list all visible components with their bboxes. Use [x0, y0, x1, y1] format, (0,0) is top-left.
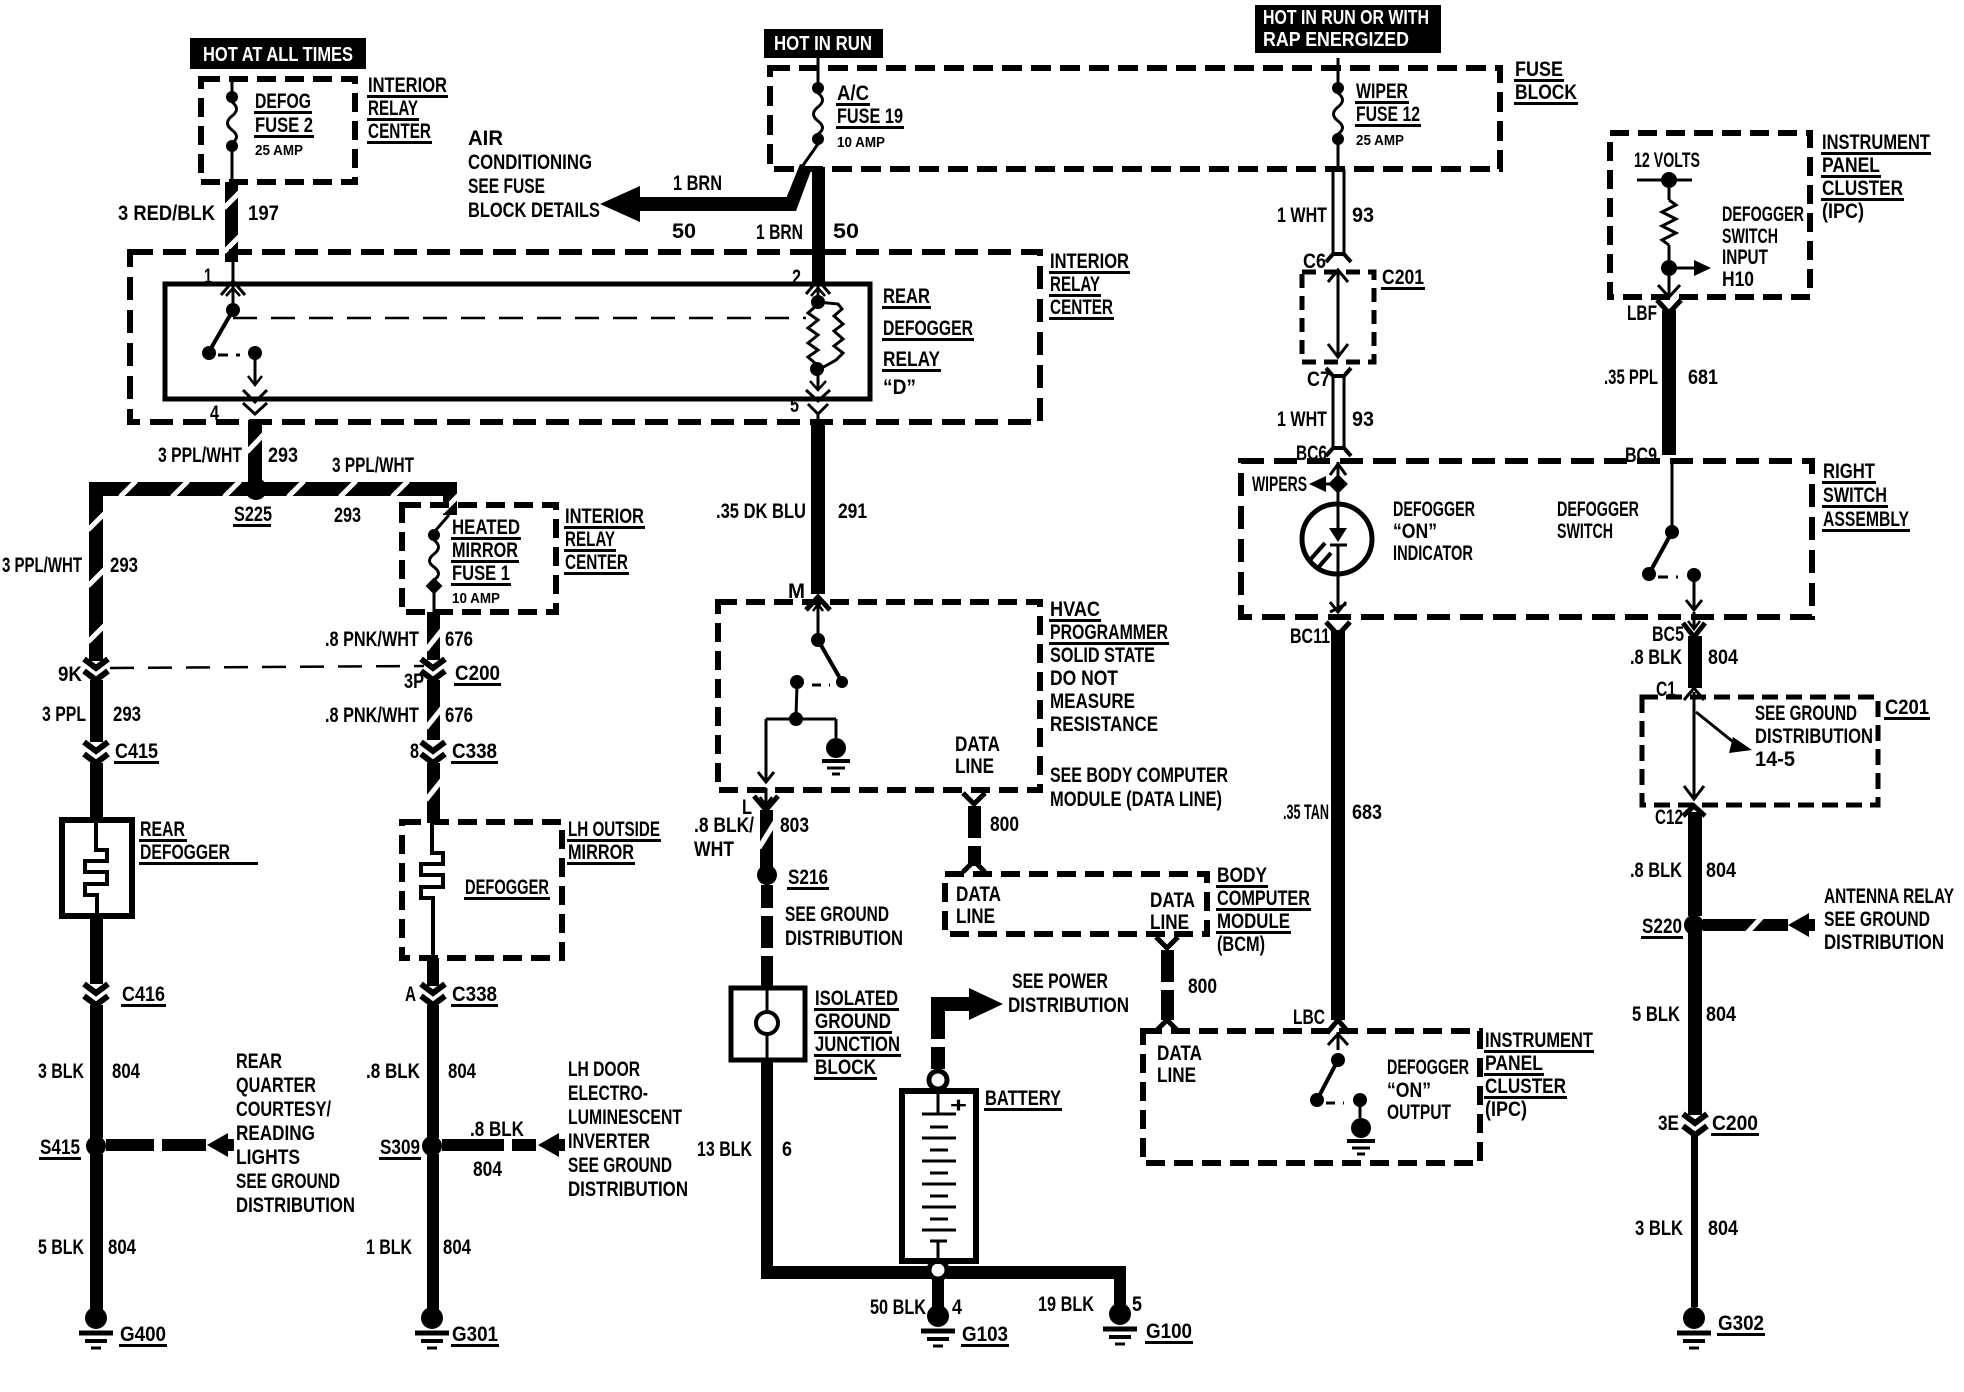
label .35 TAN 683 [1283, 801, 1382, 824]
svg-text:.8 BLK: .8 BLK [366, 1060, 420, 1083]
svg-text:GROUND: GROUND [815, 1010, 891, 1033]
ground (IPC internal) [1347, 1118, 1375, 1154]
wire through lower C201 [1684, 688, 1704, 799]
splice S216 [757, 865, 829, 890]
svg-text:CLUSTER: CLUSTER [1485, 1075, 1566, 1098]
wire 93 lower double-line (1 WHT) [1326, 368, 1351, 456]
svg-text:INSTRUMENT: INSTRUMENT [1822, 131, 1930, 154]
svg-text:5: 5 [790, 394, 799, 417]
svg-text:COMPUTER: COMPUTER [1217, 887, 1310, 910]
svg-text:OUTPUT: OUTPUT [1387, 1101, 1451, 1124]
wire .35 PPL 681 [1657, 300, 1681, 455]
fuse heated mirror symbol [426, 529, 443, 612]
svg-text:293: 293 [110, 554, 138, 577]
wire below mirror [427, 958, 439, 986]
label SEE BODY COMPUTER MODULE (DATA LINE) [1050, 764, 1228, 811]
C201 ground distribution arrow [1696, 712, 1752, 753]
right switch assembly dashed box [1241, 461, 1812, 617]
svg-text:93: 93 [1352, 408, 1374, 431]
svg-text:WIPER: WIPER [1356, 80, 1408, 103]
svg-text:DATA: DATA [956, 883, 1001, 906]
svg-text:803: 803 [780, 814, 809, 837]
label AIR CONDITIONING SEE FUSE BLOCK DETAILS [468, 127, 600, 222]
svg-text:.35 PPL: .35 PPL [1604, 366, 1658, 389]
fuse A/C FUSE 19 symbol [812, 82, 824, 145]
svg-text:READING: READING [236, 1122, 315, 1145]
label ANTENNA RELAY SEE GROUND DISTRIBUTION [1824, 885, 1954, 954]
fuse DEFOG FUSE 2 symbol [226, 91, 238, 182]
label .8 BLK/ WHT 803 [694, 814, 809, 861]
svg-text:8: 8 [410, 740, 419, 763]
wire .35 DK BLU 291 [811, 422, 825, 594]
battery top terminal circle [929, 1071, 947, 1089]
wire .8 BLK 804 (C12-S220) [1683, 806, 1705, 916]
label S225 [233, 503, 272, 527]
label A/C FUSE 19 10 AMP [836, 82, 904, 151]
svg-text:804: 804 [473, 1158, 502, 1181]
wire 293 striped from terminal 4 [247, 420, 264, 482]
mirror defogger element [421, 824, 443, 956]
wire 50 BLK 4 [932, 1279, 944, 1307]
svg-text:5 BLK: 5 BLK [1632, 1003, 1680, 1026]
terminal BC5 [1652, 612, 1705, 646]
svg-text:G100: G100 [1146, 1320, 1192, 1343]
svg-text:1 BLK: 1 BLK [366, 1236, 412, 1259]
svg-text:3 BLK: 3 BLK [1635, 1217, 1683, 1240]
label 1 BRN 50 (right) [756, 220, 859, 244]
svg-text:4: 4 [952, 1296, 962, 1319]
label REAR DEFOGGER RELAY D [882, 285, 974, 399]
fuse WIPER FUSE 12 symbol [1332, 58, 1344, 169]
svg-text:SEE GROUND: SEE GROUND [236, 1170, 340, 1193]
svg-text:REAR: REAR [236, 1050, 282, 1073]
interior relay center dashed box [130, 252, 1040, 422]
svg-text:4: 4 [210, 402, 219, 425]
wire from S225 to heated mirror fuse [435, 482, 459, 531]
svg-text:ANTENNA RELAY: ANTENNA RELAY [1824, 885, 1954, 908]
label SEE GROUND DISTRIBUTION (S216) [785, 903, 903, 950]
svg-text:RIGHT: RIGHT [1823, 460, 1875, 483]
label 3 PPL/WHT 293 (left column) [2, 554, 138, 577]
svg-text:C12: C12 [1655, 806, 1683, 829]
svg-text:676: 676 [445, 628, 473, 651]
wire 5 BLK 804 [90, 1154, 103, 1310]
label 5 BLK 804 [38, 1236, 136, 1259]
svg-text:3 PPL/WHT: 3 PPL/WHT [2, 554, 82, 577]
wire from S220 to antenna relay (arrow) [1703, 913, 1815, 937]
svg-text:FUSE 19: FUSE 19 [837, 105, 903, 128]
svg-text:PANEL: PANEL [1822, 154, 1880, 177]
svg-text:CONDITIONING: CONDITIONING [468, 151, 592, 174]
svg-text:1: 1 [204, 265, 212, 288]
label .35 PPL 681 [1604, 366, 1718, 389]
IPC defogger on output switch [1310, 1032, 1367, 1118]
svg-text:800: 800 [1188, 975, 1217, 998]
relay control dashed line [233, 317, 806, 320]
label DEFOG FUSE 2 25 AMP [254, 90, 314, 159]
svg-text:FUSE: FUSE [1515, 58, 1563, 81]
label DEFOGGER (mirror) [464, 876, 550, 900]
svg-text:“ON”: “ON” [1387, 1079, 1431, 1102]
label .35 DK BLU 291 [716, 500, 867, 523]
svg-text:BLOCK DETAILS: BLOCK DETAILS [468, 199, 600, 222]
terminal M [788, 580, 830, 620]
svg-text:RAP ENERGIZED: RAP ENERGIZED [1263, 29, 1409, 51]
svg-text:DATA: DATA [955, 733, 1000, 756]
svg-text:SWITCH: SWITCH [1722, 225, 1778, 248]
label 5 BLK 804 [1632, 1003, 1736, 1026]
svg-text:ELECTRO-: ELECTRO- [568, 1082, 648, 1105]
svg-text:A/C: A/C [837, 82, 869, 105]
splice S220 [1641, 915, 1704, 939]
svg-text:SWITCH: SWITCH [1557, 520, 1613, 543]
label DATA LINE (IPC) [1157, 1042, 1202, 1087]
svg-text:293: 293 [268, 444, 298, 467]
wire to rear defogger [90, 763, 103, 820]
instrument panel cluster dashed box (top) [1610, 133, 1810, 297]
svg-text:HOT IN RUN OR WITH: HOT IN RUN OR WITH [1263, 7, 1429, 29]
svg-text:C338: C338 [452, 740, 497, 763]
svg-text:804: 804 [108, 1236, 136, 1259]
LBC wire end flare [1327, 1020, 1349, 1033]
svg-text:CENTER: CENTER [368, 120, 431, 143]
svg-text:9K: 9K [58, 663, 82, 686]
connector C201 (lower) box [1642, 697, 1878, 805]
svg-text:G400: G400 [120, 1323, 166, 1346]
svg-text:BLOCK: BLOCK [1515, 81, 1577, 104]
wire 93 double-line (1 WHT) [1326, 169, 1351, 262]
HVAC switch [758, 610, 848, 782]
svg-text:.8 PNK/WHT: .8 PNK/WHT [325, 628, 419, 651]
ground G103 [921, 1305, 1009, 1347]
label 19 BLK 5 [1038, 1293, 1142, 1316]
svg-text:14-5: 14-5 [1755, 748, 1795, 771]
svg-text:SWITCH: SWITCH [1823, 484, 1887, 507]
dashed link 9K to C200 [110, 666, 424, 668]
svg-text:MODULE (DATA LINE): MODULE (DATA LINE) [1050, 788, 1222, 811]
svg-text:FUSE 1: FUSE 1 [452, 562, 510, 585]
dashed thick wire S216 to junction block [761, 885, 773, 988]
svg-text:197: 197 [248, 202, 279, 225]
wire .8 BLK 804 [427, 1005, 439, 1138]
svg-text:BODY: BODY [1217, 864, 1267, 887]
feed label HOT IN RUN OR WITH RAP ENERGIZED [1255, 5, 1441, 53]
svg-text:LINE: LINE [955, 755, 994, 778]
ground (HVAC internal) [822, 738, 850, 774]
wire from A/C fuse to junction [799, 144, 818, 171]
wire 19 BLK 5 [1114, 1266, 1126, 1306]
IPC internal arrow to H10 [1669, 260, 1711, 276]
svg-text:“ON”: “ON” [1393, 520, 1437, 543]
wire 3 BLK 804 [1691, 1135, 1698, 1307]
svg-text:LBC: LBC [1293, 1006, 1325, 1029]
svg-text:FUSE 12: FUSE 12 [1356, 103, 1420, 126]
wire 3 PPL 293 [90, 680, 103, 742]
ground G100 [1103, 1303, 1193, 1344]
svg-text:S220: S220 [1642, 915, 1682, 938]
svg-text:PANEL: PANEL [1485, 1052, 1543, 1075]
splice S225 dot [245, 478, 267, 500]
svg-text:A: A [405, 983, 416, 1006]
label C201 (lower) [1884, 696, 1930, 720]
svg-text:3E: 3E [1658, 1112, 1679, 1135]
svg-text:BATTERY: BATTERY [985, 1087, 1061, 1110]
svg-text:SEE GROUND: SEE GROUND [785, 903, 889, 926]
svg-text:804: 804 [1708, 1217, 1738, 1240]
svg-text:BLOCK: BLOCK [815, 1056, 876, 1079]
label INTERIOR RELAY CENTER (top left) [367, 74, 448, 144]
svg-text:1 BRN: 1 BRN [673, 172, 722, 195]
svg-text:13 BLK: 13 BLK [697, 1138, 752, 1161]
svg-text:C415: C415 [115, 740, 158, 763]
svg-text:C201: C201 [1885, 696, 1929, 719]
svg-text:PROGRAMMER: PROGRAMMER [1050, 621, 1168, 644]
svg-text:MODULE: MODULE [1217, 910, 1290, 933]
svg-text:INDICATOR: INDICATOR [1393, 542, 1473, 565]
wire from S309 to inverter (arrow) [442, 1133, 565, 1157]
label REAR DEFOGGER [139, 818, 258, 865]
svg-text:COURTESY/: COURTESY/ [236, 1098, 331, 1121]
wire below rear defogger [90, 916, 103, 984]
svg-text:LINE: LINE [1157, 1064, 1196, 1087]
connector C338 (A) [405, 983, 498, 1007]
svg-text:DISTRIBUTION: DISTRIBUTION [1755, 725, 1873, 748]
connector C200 (3P) [404, 659, 501, 693]
svg-text:.8 BLK/: .8 BLK/ [694, 814, 754, 837]
svg-text:REAR: REAR [883, 285, 930, 308]
label BODY COMPUTER MODULE (BCM) [1216, 864, 1311, 956]
svg-text:SEE BODY COMPUTER: SEE BODY COMPUTER [1050, 764, 1228, 787]
battery bottom terminal circle [929, 1261, 947, 1279]
terminal BC6 arrow into box [1330, 462, 1346, 480]
svg-text:3P: 3P [404, 670, 424, 693]
svg-text:804: 804 [443, 1236, 471, 1259]
wire 50 (1 BRN) down to relay terminal 2 [812, 167, 825, 282]
svg-text:SEE GROUND: SEE GROUND [1824, 908, 1930, 931]
label 13 BLK 6 [697, 1138, 792, 1161]
feed label HOT AT ALL TIMES [190, 38, 366, 69]
connector 9K [58, 659, 108, 686]
svg-text:50 BLK: 50 BLK [870, 1296, 926, 1319]
wire through C201 [1328, 270, 1348, 357]
svg-text:HVAC: HVAC [1050, 598, 1100, 621]
defogger switch contacts [1642, 463, 1702, 610]
svg-text:BC5: BC5 [1652, 623, 1684, 646]
svg-text:RELAY: RELAY [565, 528, 615, 551]
svg-text:C338: C338 [452, 983, 497, 1006]
svg-text:HOT IN RUN: HOT IN RUN [774, 33, 872, 55]
svg-text:JUNCTION: JUNCTION [815, 1033, 900, 1056]
svg-text:RELAY: RELAY [368, 97, 418, 120]
svg-text:.8 BLK: .8 BLK [470, 1118, 524, 1141]
ground bus wire [761, 1266, 1126, 1279]
svg-text:DEFOG: DEFOG [255, 90, 311, 113]
label DEFOGGER ON INDICATOR [1393, 498, 1475, 565]
svg-text:3 RED/BLK: 3 RED/BLK [118, 202, 215, 225]
label 3 PPL/WHT 293 (top) [158, 444, 298, 467]
label LH DOOR ELECTRO- LUMINESCENT INVERTER SEE GROUND DISTRIBUTION [568, 1058, 688, 1201]
label SEE POWER DISTRIBUTION [1008, 970, 1129, 1017]
svg-text:CENTER: CENTER [565, 551, 628, 574]
data line HVAC to BCM [963, 793, 985, 872]
svg-text:“D”: “D” [883, 376, 916, 399]
svg-text:S415: S415 [40, 1136, 80, 1159]
isolated ground junction block [731, 988, 805, 1060]
IPC internal resistor [1637, 172, 1692, 276]
wire .8 PNK/WHT 676 upper striped [426, 612, 442, 660]
svg-text:G103: G103 [962, 1323, 1008, 1346]
connector C415 [84, 740, 159, 764]
wire 1 BRN to air conditioning (arrow left) [600, 164, 812, 222]
label .8 PNK/WHT 676 (lower) [325, 704, 473, 727]
svg-text:MEASURE: MEASURE [1050, 690, 1135, 713]
label INTERIOR RELAY CENTER (mirror fuse) [564, 505, 645, 575]
svg-text:C200: C200 [455, 662, 500, 685]
label .8 BLK 804 (S309 branch) [470, 1118, 524, 1181]
label DATA LINE (HVAC) [955, 733, 1000, 778]
wire 5 BLK 804 [1688, 930, 1702, 1115]
label 1 BRN 50 (left) [672, 172, 722, 243]
HVAC programmer dashed box [718, 602, 1040, 790]
svg-text:INVERTER: INVERTER [568, 1130, 650, 1153]
svg-text:DEFOGGER: DEFOGGER [883, 317, 973, 340]
svg-text:3 PPL/WHT: 3 PPL/WHT [158, 444, 242, 467]
body computer module dashed box [945, 874, 1207, 934]
svg-text:SEE POWER: SEE POWER [1012, 970, 1108, 993]
label 3 BLK 804 [38, 1060, 140, 1083]
label 3 BLK 804 [1635, 1217, 1738, 1240]
label 3 RED/BLK 197 [118, 202, 279, 225]
label WIPER FUSE 12 25 AMP [1355, 80, 1421, 149]
svg-text:12 VOLTS: 12 VOLTS [1634, 149, 1700, 172]
svg-text:DATA: DATA [1157, 1042, 1202, 1065]
label DEFOGGER SWITCH [1557, 498, 1639, 543]
terminal 5 [790, 390, 830, 422]
svg-text:(BCM): (BCM) [1217, 933, 1265, 956]
svg-text:10 AMP: 10 AMP [837, 134, 885, 151]
label .8 BLK 804 (BC5) [1630, 646, 1738, 669]
label INTERIOR RELAY CENTER (right of relay) [1049, 250, 1130, 320]
wire 293 striped left column [88, 489, 105, 661]
label 1 WHT 93 (lower) [1277, 408, 1374, 431]
label RIGHT SWITCH ASSEMBLY [1822, 460, 1910, 532]
svg-text:SEE GROUND: SEE GROUND [568, 1154, 672, 1177]
svg-text:DISTRIBUTION: DISTRIBUTION [236, 1194, 355, 1217]
svg-text:WIPERS: WIPERS [1252, 473, 1307, 496]
svg-text:G302: G302 [1718, 1312, 1764, 1335]
splice S309 [379, 1136, 442, 1160]
connector C416 [84, 983, 166, 1007]
svg-text:RESISTANCE: RESISTANCE [1050, 713, 1158, 736]
label C201 (upper) [1381, 266, 1425, 290]
svg-text:676: 676 [445, 704, 473, 727]
svg-text:S309: S309 [380, 1136, 420, 1159]
svg-text:293: 293 [334, 504, 361, 527]
svg-text:DEFOGGER: DEFOGGER [1722, 203, 1804, 226]
svg-text:INPUT: INPUT [1722, 246, 1768, 269]
wire 1 BLK 804 [427, 1154, 439, 1310]
fuse F2 box (interior relay center) [201, 79, 355, 182]
svg-text:LH DOOR: LH DOOR [568, 1058, 640, 1081]
svg-text:MIRROR: MIRROR [568, 841, 634, 864]
wire to power distribution (arrow right) [931, 988, 1003, 1069]
svg-text:DISTRIBUTION: DISTRIBUTION [1008, 994, 1129, 1017]
svg-text:19 BLK: 19 BLK [1038, 1293, 1094, 1316]
feed label HOT IN RUN [764, 29, 883, 58]
svg-text:INTERIOR: INTERIOR [368, 74, 447, 97]
svg-text:LUMINESCENT: LUMINESCENT [568, 1106, 682, 1129]
WIPERS arrow [1252, 473, 1348, 496]
svg-text:S216: S216 [788, 866, 828, 889]
svg-text:INTERIOR: INTERIOR [565, 505, 644, 528]
IPC exit arrow LBF [1658, 272, 1680, 297]
indicator lamp circle [1302, 484, 1372, 612]
svg-text:5 BLK: 5 BLK [38, 1236, 84, 1259]
svg-text:804: 804 [448, 1060, 476, 1083]
svg-text:(IPC): (IPC) [1822, 200, 1864, 223]
svg-text:LIGHTS: LIGHTS [236, 1146, 300, 1169]
svg-text:QUARTER: QUARTER [236, 1074, 316, 1097]
svg-text:3 PPL/WHT: 3 PPL/WHT [332, 454, 414, 477]
svg-text:LINE: LINE [1150, 911, 1189, 934]
wire from S415 to rear quarter lights (arrow) [106, 1133, 234, 1157]
rear defogger element box [62, 820, 132, 916]
svg-text:DEFOGGER: DEFOGGER [465, 876, 549, 899]
wire .35 TAN 683 [1326, 622, 1350, 1020]
label 3 PPL 293 [42, 703, 141, 726]
ground G301 [415, 1307, 499, 1348]
svg-text:.35 TAN: .35 TAN [1283, 801, 1329, 824]
svg-text:HEATED: HEATED [452, 516, 520, 539]
splice S225 bus striped [89, 481, 443, 497]
svg-text:ISOLATED: ISOLATED [815, 987, 898, 1010]
svg-text:DEFOGGER: DEFOGGER [1557, 498, 1639, 521]
label ISOLATED GROUND JUNCTION BLOCK [814, 987, 901, 1080]
terminal 2 [792, 266, 830, 298]
svg-text:804: 804 [1708, 646, 1738, 669]
terminal L [742, 788, 778, 819]
LH outside mirror dashed box [402, 822, 562, 958]
svg-text:804: 804 [1706, 859, 1736, 882]
terminal 1 [204, 262, 245, 304]
svg-text:DEFOGGER: DEFOGGER [1387, 1056, 1469, 1079]
svg-text:DEFOGGER: DEFOGGER [1393, 498, 1475, 521]
svg-text:93: 93 [1352, 204, 1374, 227]
svg-text:H10: H10 [1722, 268, 1754, 291]
svg-text:291: 291 [838, 500, 867, 523]
label REAR QUARTER COURTESY/ READING LIGHTS SEE GROUND DISTRIBUTION [236, 1050, 355, 1217]
label .8 BLK 804 (C12) [1630, 859, 1736, 882]
svg-text:804: 804 [112, 1060, 140, 1083]
svg-text:804: 804 [1706, 1003, 1736, 1026]
svg-text:INTERIOR: INTERIOR [1050, 250, 1129, 273]
svg-text:DATA: DATA [1150, 889, 1195, 912]
label DATA LINE (BCM left) [956, 883, 1001, 928]
wire 3 BLK 804 [90, 1005, 103, 1138]
battery box [902, 1091, 976, 1261]
svg-text:10 AMP: 10 AMP [452, 590, 500, 607]
svg-text:DISTRIBUTION: DISTRIBUTION [1824, 931, 1944, 954]
svg-text:.35 DK BLU: .35 DK BLU [716, 500, 806, 523]
label INSTRUMENT PANEL CLUSTER (IPC) bottom [1484, 1029, 1594, 1121]
svg-text:C200: C200 [1712, 1112, 1758, 1135]
svg-text:ASSEMBLY: ASSEMBLY [1823, 508, 1909, 531]
svg-text:50: 50 [672, 220, 696, 243]
label FUSE BLOCK [1514, 58, 1578, 105]
wire 13 BLK 6 [761, 1060, 773, 1272]
relay contact arm [202, 303, 262, 385]
label 1 WHT 93 (upper) [1277, 204, 1374, 227]
